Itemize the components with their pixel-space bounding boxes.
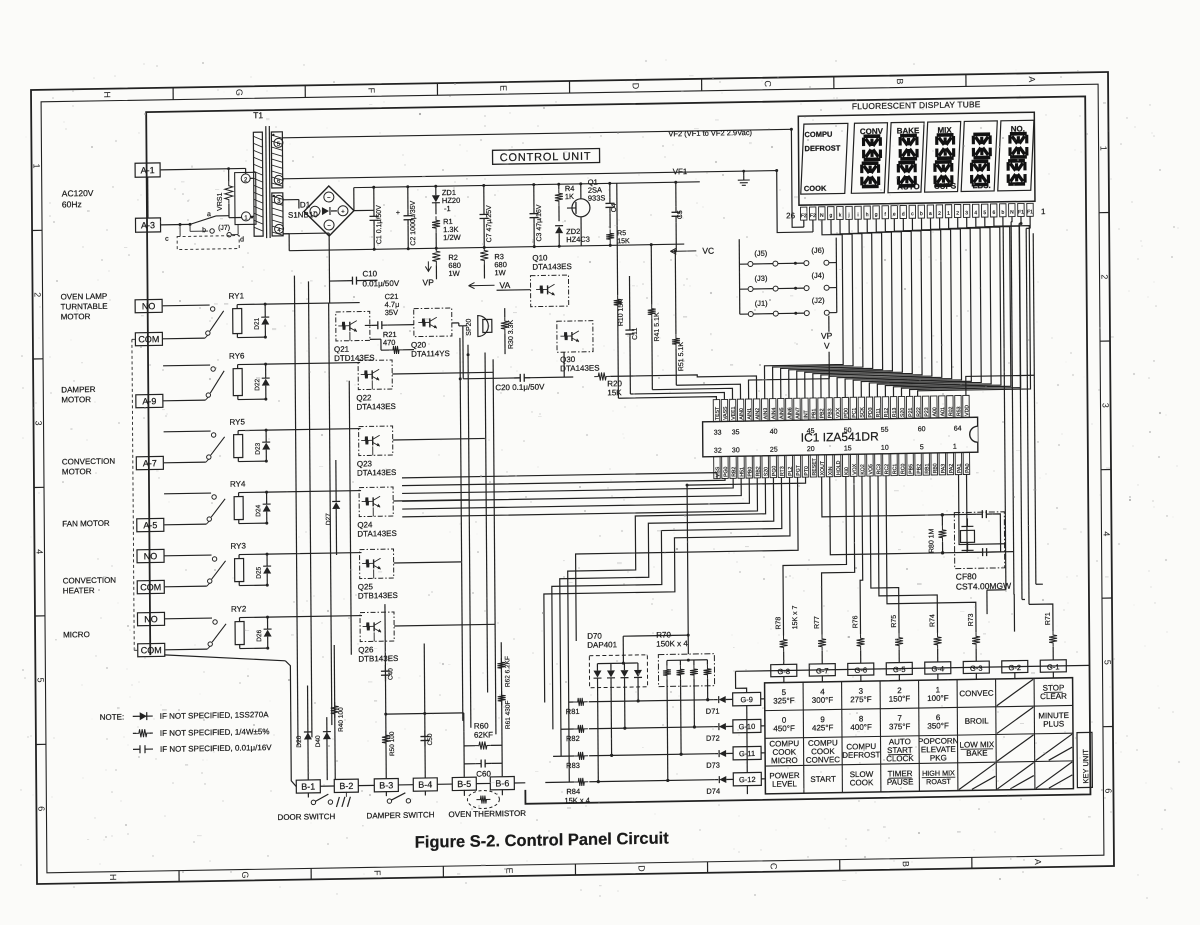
svg-text:COM: COM <box>140 582 161 592</box>
svg-text:VEE1: VEE1 <box>731 406 737 419</box>
svg-text:DTA114YS: DTA114YS <box>411 349 450 359</box>
svg-text:PA0: PA0 <box>965 463 971 473</box>
svg-text:XIN: XIN <box>828 466 834 475</box>
svg-text:R60: R60 <box>474 721 489 730</box>
svg-text:CLOCK: CLOCK <box>886 754 914 763</box>
svg-text:375°F: 375°F <box>889 722 911 731</box>
svg-text:B-2: B-2 <box>339 781 353 791</box>
svg-text:D: D <box>631 83 641 90</box>
svg-text:50: 50 <box>844 427 852 434</box>
svg-text:START: START <box>810 775 836 784</box>
svg-text:B-1: B-1 <box>301 782 315 792</box>
svg-text:1: 1 <box>947 211 950 217</box>
svg-text:RY2: RY2 <box>231 604 247 613</box>
svg-text:400°F: 400°F <box>850 723 872 732</box>
svg-text:IF NOT SPECIFIED, 0.01μ/16V: IF NOT SPECIFIED, 0.01μ/16V <box>160 743 272 754</box>
svg-text:NOTE:: NOTE: <box>100 713 125 722</box>
svg-text:15: 15 <box>844 445 852 452</box>
svg-text:RY3: RY3 <box>230 541 246 550</box>
svg-text:Q26: Q26 <box>358 645 374 654</box>
svg-text:100°F: 100°F <box>927 694 949 703</box>
svg-text:H51: H51 <box>739 467 745 477</box>
svg-text:F2: F2 <box>801 213 807 219</box>
svg-text:CLEAR: CLEAR <box>1040 692 1067 701</box>
svg-text:VXX: VXX <box>835 407 841 418</box>
svg-text:MOTOR: MOTOR <box>62 467 92 476</box>
svg-text:3: 3 <box>965 210 968 216</box>
svg-text:D22: D22 <box>254 378 261 390</box>
svg-text:F: F <box>366 87 376 93</box>
svg-text:R22: R22 <box>916 407 922 417</box>
svg-text:D74: D74 <box>706 787 720 796</box>
svg-text:DEFROST: DEFROST <box>805 143 841 153</box>
svg-text:(J5): (J5) <box>754 249 767 258</box>
svg-text:F1: F1 <box>1018 209 1024 215</box>
svg-text:R81: R81 <box>566 707 580 716</box>
svg-text:40: 40 <box>770 429 778 436</box>
svg-text:1W: 1W <box>494 268 506 277</box>
svg-text:R50 100: R50 100 <box>389 731 396 756</box>
svg-text:325°F: 325°F <box>773 696 795 705</box>
svg-text:(J3): (J3) <box>754 274 767 283</box>
svg-text:425°F: 425°F <box>812 723 834 732</box>
svg-text:2: 2 <box>956 211 959 217</box>
svg-text:AIN2: AIN2 <box>755 408 761 420</box>
svg-text:CONVEC: CONVEC <box>959 689 994 699</box>
svg-text:4: 4 <box>1101 531 1111 536</box>
svg-text:BROIL: BROIL <box>965 716 990 725</box>
svg-text:PGT: PGT <box>796 464 802 476</box>
svg-text:Q22: Q22 <box>356 393 372 402</box>
svg-text:C40: C40 <box>387 668 394 680</box>
svg-text:A00: A00 <box>932 407 938 416</box>
svg-text:PB2: PB2 <box>916 464 922 474</box>
svg-text:VASS: VASS <box>723 406 729 420</box>
svg-text:R70: R70 <box>656 630 671 639</box>
svg-text:BAKE: BAKE <box>966 749 987 758</box>
svg-text:+: + <box>396 210 400 217</box>
svg-text:COMPU: COMPU <box>804 130 832 139</box>
svg-text:VA: VA <box>499 280 510 290</box>
svg-text:5: 5 <box>983 210 986 216</box>
svg-text:g: g <box>875 212 878 218</box>
svg-text:F: F <box>372 870 382 876</box>
svg-text:1/2W: 1/2W <box>443 233 461 242</box>
svg-text:DTD143ES: DTD143ES <box>334 353 375 363</box>
svg-text:−: − <box>327 196 331 202</box>
svg-text:DTA143ES: DTA143ES <box>560 364 600 374</box>
svg-text:R20: R20 <box>607 379 622 388</box>
svg-text:RC2: RC2 <box>884 464 890 475</box>
svg-text:275°F: 275°F <box>850 695 872 704</box>
svg-text:PB5: PB5 <box>908 464 914 474</box>
svg-text:MOTOR: MOTOR <box>61 395 91 404</box>
svg-text:D27: D27 <box>325 513 332 525</box>
svg-text:RB2: RB2 <box>755 466 761 476</box>
svg-text:IF NOT SPECIFIED, 1SS270A: IF NOT SPECIFIED, 1SS270A <box>160 710 270 721</box>
svg-text:OVEN LAMP: OVEN LAMP <box>61 292 108 302</box>
svg-text:D25: D25 <box>256 566 263 578</box>
svg-text:R71: R71 <box>1045 612 1052 625</box>
svg-text:V: V <box>824 341 830 351</box>
svg-text:DTB143ES: DTB143ES <box>358 654 398 664</box>
svg-text:E: E <box>504 868 514 874</box>
svg-text:Q21: Q21 <box>334 345 350 354</box>
svg-text:HEATER: HEATER <box>63 586 95 596</box>
svg-text:R02: R02 <box>948 406 954 416</box>
svg-text:A-5: A-5 <box>143 520 157 530</box>
svg-text:TURNTABLE: TURNTABLE <box>61 302 108 312</box>
svg-text:450°F: 450°F <box>773 724 795 733</box>
svg-text:10: 10 <box>881 445 889 452</box>
svg-text:G-3: G-3 <box>970 664 983 673</box>
svg-text:INT: INT <box>803 409 809 418</box>
svg-text:15K x 7: 15K x 7 <box>792 605 799 629</box>
svg-text:NO: NO <box>144 614 158 624</box>
svg-text:HOLD: HOLD <box>836 460 842 475</box>
svg-text:DAP401: DAP401 <box>587 640 617 650</box>
svg-text:S1NB10: S1NB10 <box>288 210 318 220</box>
svg-text:20: 20 <box>807 446 815 453</box>
svg-text:Q23: Q23 <box>357 459 373 468</box>
svg-text:60: 60 <box>918 426 926 433</box>
svg-text:D23: D23 <box>255 442 262 454</box>
svg-text:DAMPER SWITCH: DAMPER SWITCH <box>366 810 434 820</box>
svg-text:R5: R5 <box>617 230 626 237</box>
svg-text:RESET: RESET <box>812 457 818 475</box>
svg-text:RC3: RC3 <box>876 464 882 475</box>
svg-text:CF80: CF80 <box>956 571 977 581</box>
svg-text:G: G <box>234 89 244 96</box>
svg-text:DAMPER: DAMPER <box>61 385 96 395</box>
svg-text:R53: R53 <box>956 406 962 416</box>
svg-text:COM: COM <box>138 334 159 344</box>
svg-text:b: b <box>920 211 923 217</box>
svg-text:B-3: B-3 <box>379 780 393 790</box>
svg-text:VO5: VO5 <box>868 464 874 475</box>
svg-text:OVEN THERMISTOR: OVEN THERMISTOR <box>448 809 526 819</box>
svg-text:VSS: VSS <box>715 466 721 477</box>
svg-text:PT0: PT0 <box>804 466 810 476</box>
svg-text:VOX: VOX <box>852 463 858 475</box>
svg-text:R84: R84 <box>566 787 580 796</box>
svg-text:P21: P21 <box>908 407 914 416</box>
svg-text:C7 47μ/25V: C7 47μ/25V <box>486 205 493 243</box>
svg-text:DEFROST: DEFROST <box>842 750 880 760</box>
svg-text:A01: A01 <box>940 407 946 416</box>
svg-text:NO: NO <box>142 301 156 311</box>
svg-text:1: 1 <box>1041 207 1046 216</box>
svg-text:C: C <box>769 863 779 870</box>
svg-text:30: 30 <box>732 447 740 454</box>
svg-text:33: 33 <box>714 430 722 437</box>
svg-text:C2 1000μ/35V: C2 1000μ/35V <box>410 200 417 245</box>
svg-text:KEY UNIT: KEY UNIT <box>1081 749 1090 784</box>
svg-text:R74: R74 <box>929 614 936 627</box>
svg-text:PB3: PB3 <box>827 408 833 418</box>
svg-text:F1: F1 <box>1027 209 1033 215</box>
svg-text:(J2): (J2) <box>812 296 825 305</box>
svg-text:DTA143ES: DTA143ES <box>357 529 397 539</box>
svg-text:A-9: A-9 <box>142 396 156 406</box>
svg-text:C50: C50 <box>427 733 434 745</box>
svg-text:COM: COM <box>141 645 162 655</box>
svg-text:VP: VP <box>821 331 833 341</box>
svg-text:VDD: VDD <box>964 405 970 416</box>
svg-text:D1: D1 <box>300 200 311 209</box>
svg-text:R13: R13 <box>892 407 898 417</box>
svg-text:D71: D71 <box>706 707 720 716</box>
svg-text:3: 3 <box>34 421 44 426</box>
svg-text:R41 5.1K: R41 5.1K <box>654 312 661 342</box>
svg-text:PLUS: PLUS <box>1043 719 1064 728</box>
svg-text:G: G <box>240 871 250 878</box>
svg-text:(J4): (J4) <box>811 271 824 280</box>
svg-text:AIN6: AIN6 <box>787 407 793 419</box>
svg-text:j: j <box>847 212 849 218</box>
svg-text:N: N <box>820 213 824 219</box>
svg-text:R10 15K: R10 15K <box>618 299 625 327</box>
svg-text:NO: NO <box>144 551 158 561</box>
svg-text:G-4: G-4 <box>931 664 944 673</box>
svg-text:T1: T1 <box>253 110 263 120</box>
svg-text:15K x 4: 15K x 4 <box>564 796 590 805</box>
svg-text:CST4.00MGW: CST4.00MGW <box>956 581 1011 592</box>
svg-text:A-3: A-3 <box>141 220 155 230</box>
svg-text:R51 5.1K: R51 5.1K <box>678 342 685 372</box>
svg-text:CONVECTION: CONVECTION <box>63 576 117 586</box>
svg-text:D24: D24 <box>255 504 262 516</box>
svg-text:Q30: Q30 <box>560 355 576 364</box>
svg-text:C10: C10 <box>362 269 377 278</box>
svg-text:4: 4 <box>974 210 977 216</box>
svg-text:a: a <box>207 211 211 218</box>
svg-text:PB1: PB1 <box>811 408 817 418</box>
svg-text:PC1: PC1 <box>852 408 858 418</box>
svg-text:(J7): (J7) <box>218 225 230 232</box>
svg-text:D21: D21 <box>254 317 261 329</box>
svg-text:D26: D26 <box>256 629 263 641</box>
svg-text:SCK: SCK <box>860 406 866 417</box>
svg-text:1K: 1K <box>565 192 574 201</box>
svg-text:B-4: B-4 <box>418 780 432 790</box>
svg-text:PB0: PB0 <box>747 467 753 477</box>
svg-text:64: 64 <box>954 426 962 433</box>
svg-text:933S: 933S <box>588 193 606 202</box>
svg-text:P23: P23 <box>924 407 930 416</box>
svg-text:-1: -1 <box>444 204 451 213</box>
svg-text:6: 6 <box>1103 788 1113 793</box>
svg-text:PA2: PA2 <box>949 464 955 474</box>
svg-text:RC1: RC1 <box>892 464 898 475</box>
svg-text:AIN3: AIN3 <box>763 408 769 420</box>
svg-text:G-9: G-9 <box>740 695 753 704</box>
svg-text:D70: D70 <box>587 632 602 641</box>
svg-text:15K: 15K <box>607 388 622 397</box>
svg-text:G-7: G-7 <box>816 666 829 675</box>
svg-text:1W: 1W <box>448 269 460 278</box>
svg-text:1: 1 <box>953 444 957 451</box>
svg-text:i: i <box>857 212 858 218</box>
svg-text:C60: C60 <box>476 769 491 778</box>
svg-text:RY5: RY5 <box>230 417 246 426</box>
svg-text:RC0: RC0 <box>900 463 906 474</box>
svg-text:R73: R73 <box>968 613 975 626</box>
svg-text:32: 32 <box>714 448 722 455</box>
svg-text:4: 4 <box>34 549 44 554</box>
svg-text:PA1: PA1 <box>957 463 963 473</box>
svg-text:PKG: PKG <box>930 753 947 762</box>
svg-text:RY4: RY4 <box>230 479 246 488</box>
svg-text:D72: D72 <box>706 734 720 743</box>
svg-text:VC: VC <box>702 246 714 256</box>
svg-text:b: b <box>202 227 206 234</box>
svg-text:G-2: G-2 <box>1008 663 1021 672</box>
svg-text:470: 470 <box>383 338 396 347</box>
svg-text:RB1: RB1 <box>924 463 930 473</box>
svg-text:(J1): (J1) <box>755 299 768 308</box>
svg-text:PG0: PG0 <box>772 466 778 477</box>
svg-text:R12: R12 <box>884 408 890 418</box>
svg-text:IF NOT SPECIFIED, 1/4W±5%: IF NOT SPECIFIED, 1/4W±5% <box>160 727 270 738</box>
svg-text:R78: R78 <box>775 617 782 630</box>
svg-text:c: c <box>165 236 169 243</box>
svg-text:(J6): (J6) <box>811 246 824 255</box>
svg-text:Q24: Q24 <box>357 520 373 529</box>
svg-text:H: H <box>108 874 118 881</box>
svg-text:26: 26 <box>786 211 796 220</box>
svg-text:COOK: COOK <box>850 778 874 787</box>
svg-text:DOOR SWITCH: DOOR SWITCH <box>277 812 335 822</box>
svg-text:MICRO: MICRO <box>63 630 90 639</box>
svg-text:RB2: RB2 <box>731 467 737 477</box>
svg-text:62KF: 62KF <box>474 730 493 739</box>
svg-text:R80 1M: R80 1M <box>928 528 935 553</box>
svg-text:PG0: PG0 <box>723 466 729 477</box>
svg-text:KI0: KI0 <box>844 467 850 475</box>
svg-text:VF2 (VF1 to VF2 2.9Vac): VF2 (VF1 to VF2 2.9Vac) <box>668 128 752 138</box>
svg-text:RY6: RY6 <box>229 351 245 360</box>
svg-text:150K x 4: 150K x 4 <box>656 639 688 649</box>
svg-text:LEVEL: LEVEL <box>772 779 798 788</box>
svg-text:S20: S20 <box>763 467 769 476</box>
svg-text:HZ4C3: HZ4C3 <box>566 235 590 244</box>
svg-text:−: − <box>327 224 331 230</box>
svg-text:A-1: A-1 <box>141 165 155 175</box>
svg-text:e: e <box>893 212 896 218</box>
svg-text:MOTOR: MOTOR <box>61 312 91 321</box>
svg-text:FAN MOTOR: FAN MOTOR <box>62 519 110 529</box>
svg-text:2: 2 <box>33 292 43 297</box>
svg-text:ROAST: ROAST <box>926 777 951 786</box>
svg-text:6: 6 <box>992 210 995 216</box>
svg-text:2: 2 <box>1100 274 1110 279</box>
svg-text:R11: R11 <box>876 408 882 417</box>
svg-text:CONVEC: CONVEC <box>806 755 841 765</box>
svg-text:A: A <box>1033 859 1043 865</box>
svg-text:H: H <box>102 91 112 98</box>
svg-text:B: B <box>895 78 905 84</box>
svg-text:D20: D20 <box>296 735 303 747</box>
svg-text:G-5: G-5 <box>893 665 906 674</box>
svg-text:25: 25 <box>770 447 778 454</box>
svg-text:DTB143ES: DTB143ES <box>358 591 398 601</box>
svg-text:N: N <box>1010 210 1014 216</box>
svg-text:A-7: A-7 <box>143 458 157 468</box>
svg-text:b: b <box>1001 210 1004 216</box>
svg-text:45: 45 <box>807 428 815 435</box>
svg-text:R62 6.2KF: R62 6.2KF <box>504 656 511 687</box>
svg-text:AIN5: AIN5 <box>779 407 785 419</box>
svg-text:3: 3 <box>1101 403 1111 408</box>
svg-text:TEST: TEST <box>715 406 721 420</box>
svg-text:15K: 15K <box>617 238 630 245</box>
svg-text:Q10: Q10 <box>532 253 548 262</box>
svg-text:150°F: 150°F <box>889 694 911 703</box>
svg-text:CONVECTION: CONVECTION <box>62 457 116 467</box>
svg-text:R75: R75 <box>891 615 898 628</box>
svg-text:Q25: Q25 <box>358 582 374 591</box>
svg-text:Q20: Q20 <box>411 340 427 349</box>
svg-text:PAUSE: PAUSE <box>887 777 914 786</box>
svg-text:6: 6 <box>36 806 46 811</box>
svg-text:R83: R83 <box>566 761 580 770</box>
svg-text:C1 0.1μ/50V: C1 0.1μ/50V <box>376 205 383 245</box>
svg-text:5: 5 <box>35 678 45 683</box>
svg-text:A: A <box>1027 76 1037 82</box>
svg-text:AIN4: AIN4 <box>771 407 777 419</box>
svg-text:C11: C11 <box>632 327 639 340</box>
svg-text:1: 1 <box>1099 146 1109 151</box>
svg-text:C: C <box>763 80 773 87</box>
svg-text:D: D <box>637 865 647 872</box>
svg-text:g: g <box>830 213 833 219</box>
svg-text:DTA143ES: DTA143ES <box>357 468 397 478</box>
svg-text:R40 100: R40 100 <box>338 707 345 732</box>
svg-text:55: 55 <box>881 427 889 434</box>
svg-text:2: 2 <box>938 211 941 217</box>
svg-text:VRS1: VRS1 <box>217 192 224 211</box>
svg-text:AIN7: AIN7 <box>795 407 801 419</box>
svg-text:R77: R77 <box>814 616 821 629</box>
svg-text:G-12: G-12 <box>739 775 756 784</box>
svg-text:XOUT: XOUT <box>820 460 826 475</box>
svg-text:5: 5 <box>920 444 924 451</box>
svg-text:AIN1: AIN1 <box>747 408 753 420</box>
svg-text:E: E <box>498 85 508 91</box>
svg-text:1: 1 <box>32 164 42 169</box>
svg-text:d: d <box>902 211 905 217</box>
svg-text:B: B <box>901 861 911 867</box>
svg-text:S20: S20 <box>900 408 906 417</box>
svg-text:B-6: B-6 <box>495 778 509 788</box>
svg-text:D40: D40 <box>315 735 322 747</box>
svg-text:AIN0: AIN0 <box>739 408 745 420</box>
svg-text:DTA143ES: DTA143ES <box>532 262 572 272</box>
svg-text:PA3: PA3 <box>941 464 947 474</box>
svg-text:COOK: COOK <box>804 184 827 193</box>
svg-text:5: 5 <box>1102 660 1112 665</box>
svg-text:RT3: RT3 <box>780 466 786 476</box>
svg-text:B-5: B-5 <box>457 779 471 789</box>
svg-text:VP: VP <box>422 277 434 287</box>
svg-text:h: h <box>866 212 869 218</box>
svg-text:35: 35 <box>732 429 740 436</box>
svg-text:35V: 35V <box>385 308 398 317</box>
svg-text:RY1: RY1 <box>229 291 245 300</box>
svg-text:+: + <box>341 209 345 215</box>
svg-text:a: a <box>929 211 932 217</box>
